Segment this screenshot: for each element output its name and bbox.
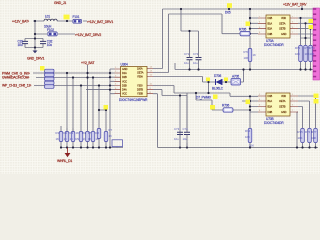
- svg-text:R7: R7: [109, 128, 113, 132]
- svg-text:1K: 1K: [96, 137, 100, 141]
- svg-text:DXXC7404DR: DXXC7404DR: [264, 121, 284, 125]
- svg-text:D3B: D3B: [268, 32, 273, 36]
- svg-text:GND: GND: [281, 32, 287, 36]
- svg-text:DXXC7404DR: DXXC7404DR: [264, 43, 284, 47]
- svg-text:R74: R74: [245, 129, 251, 133]
- svg-text:D57B: D57B: [137, 88, 143, 92]
- svg-text:A705: A705: [232, 75, 239, 79]
- svg-text:›+12V_BAT_DRV1: ›+12V_BAT_DRV1: [87, 20, 113, 24]
- svg-text:BL06LC: BL06LC: [212, 86, 224, 90]
- svg-text:OE7B: OE7B: [279, 27, 286, 31]
- svg-text:B1A: B1A: [268, 21, 273, 25]
- svg-text:GND_J1: GND_J1: [54, 1, 66, 5]
- svg-text:10u: 10u: [174, 137, 179, 141]
- svg-text:B1A: B1A: [268, 99, 273, 103]
- svg-text:OE7A: OE7A: [279, 21, 286, 25]
- svg-text:10K: 10K: [244, 56, 249, 60]
- svg-text:D05: D05: [225, 11, 231, 15]
- svg-text:D4A: D4A: [122, 88, 127, 92]
- svg-text:1K: 1K: [76, 131, 80, 135]
- svg-text:R77: R77: [311, 130, 317, 134]
- svg-text:Y50A: Y50A: [137, 75, 143, 79]
- svg-text:1K: 1K: [253, 53, 257, 57]
- svg-text:VDD: VDD: [281, 16, 286, 20]
- svg-text:B2A: B2A: [268, 105, 273, 109]
- svg-text:R4: R4: [82, 131, 86, 135]
- svg-text:Y300: Y300: [137, 84, 143, 88]
- svg-text:1K: 1K: [56, 137, 60, 141]
- svg-text:OE7A: OE7A: [137, 71, 144, 75]
- svg-text:GWM/DAC/HCOM›: GWM/DAC/HCOM›: [2, 75, 29, 79]
- svg-text:10K: 10K: [310, 52, 315, 56]
- svg-text:R1: R1: [56, 131, 60, 135]
- svg-text:10K: 10K: [249, 144, 254, 148]
- svg-text:10u: 10u: [184, 61, 189, 65]
- svg-text:C74: C74: [183, 127, 189, 131]
- svg-text:OE7B: OE7B: [279, 105, 286, 109]
- svg-text:U304: U304: [121, 63, 129, 67]
- svg-text:1K: 1K: [64, 137, 68, 141]
- svg-text:10K: 10K: [245, 135, 250, 139]
- svg-text:10u: 10u: [18, 43, 23, 47]
- svg-text:OE7A: OE7A: [279, 99, 286, 103]
- svg-text:R3: R3: [70, 131, 74, 135]
- svg-text:1K: 1K: [88, 137, 92, 141]
- svg-text:+Y2_BAT: +Y2_BAT: [81, 61, 94, 65]
- svg-text:+12V_BAT_DRV: +12V_BAT_DRV: [283, 2, 307, 6]
- svg-text:Y30B: Y30B: [137, 92, 143, 96]
- svg-text:›+12V_BAT_DRV2: ›+12V_BAT_DRV2: [75, 33, 101, 37]
- svg-text:VCC: VCC: [122, 79, 127, 83]
- svg-text:R71: R71: [295, 46, 301, 50]
- svg-text:F102: F102: [47, 28, 54, 32]
- svg-text:R70: R70: [244, 50, 250, 54]
- svg-text:WP_CH13_CH6_13›: WP_CH13_CH6_13›: [2, 83, 31, 87]
- svg-text:R76: R76: [305, 130, 311, 134]
- svg-text:D1B: D1B: [268, 16, 273, 20]
- svg-text:D1B: D1B: [268, 94, 273, 98]
- svg-text:GND: GND: [122, 67, 128, 71]
- svg-text:D706: D706: [214, 74, 222, 78]
- svg-text:C73: C73: [174, 127, 180, 131]
- svg-text:DXXC74HC245PWR: DXXC74HC245PWR: [119, 98, 148, 102]
- svg-text:‹+12V_BAT›: ‹+12V_BAT›: [12, 20, 29, 24]
- svg-text:D3B: D3B: [268, 110, 273, 114]
- svg-text:1K: 1K: [70, 137, 74, 141]
- svg-text:10u: 10u: [193, 61, 198, 65]
- svg-text:GND_DRV1: GND_DRV1: [27, 57, 44, 61]
- svg-text:L01: L01: [45, 15, 50, 19]
- svg-text:R706: R706: [222, 104, 230, 108]
- svg-text:10K: 10K: [295, 52, 300, 56]
- svg-text:GND: GND: [281, 110, 287, 114]
- svg-text:VCC: VCC: [122, 92, 127, 96]
- svg-text:R2: R2: [64, 131, 68, 135]
- svg-text:1K: 1K: [109, 134, 113, 138]
- svg-text:10K: 10K: [311, 136, 316, 140]
- svg-text:100A: 100A: [137, 67, 143, 71]
- svg-text:10u: 10u: [47, 43, 52, 47]
- svg-text:R5: R5: [88, 131, 92, 135]
- svg-text:VDD: VDD: [281, 94, 286, 98]
- svg-text:1K: 1K: [82, 137, 86, 141]
- svg-text:F101: F101: [73, 15, 80, 19]
- svg-text:D1A: D1A: [122, 71, 127, 75]
- svg-text:10K: 10K: [298, 136, 303, 140]
- svg-text:B2A: B2A: [268, 27, 273, 31]
- svg-text:C72: C72: [193, 52, 199, 56]
- svg-text:R75: R75: [298, 130, 304, 134]
- svg-text:R9: R9: [76, 137, 80, 141]
- svg-text:D3B: D3B: [122, 84, 127, 88]
- svg-text:R705: R705: [239, 28, 247, 32]
- svg-text:R6: R6: [96, 131, 100, 135]
- svg-text:D7_PWM0: D7_PWM0: [196, 95, 211, 99]
- svg-text:C71: C71: [184, 52, 190, 56]
- svg-text:R73: R73: [310, 46, 316, 50]
- svg-text:10u: 10u: [183, 137, 188, 141]
- svg-text:D2B: D2B: [122, 75, 127, 79]
- svg-text:WHRL_D1: WHRL_D1: [57, 159, 72, 163]
